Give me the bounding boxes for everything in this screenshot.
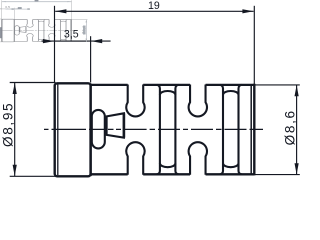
dimension 3,5: outside arrowhead left	[43, 39, 54, 43]
ghost 19-dimension line	[2, 1, 71, 3]
nub boss (capsule)	[92, 110, 105, 148]
ghost right diameter label smudge	[83, 26, 86, 35]
dimension 3,5: extension line right	[90, 36, 92, 82]
dimension Ø8,6: dimension line	[296, 85, 298, 174]
dimension 19: left arrowhead	[55, 9, 66, 13]
clipped ghost text remnant at left edge	[0, 27, 2, 38]
dimension 19: dimension line	[55, 10, 253, 12]
dimension 19: extension line left	[54, 6, 56, 82]
drawing group (main view + dimensions)	[1, 0, 300, 176]
body top edge (Ø8.6 section)	[91, 84, 255, 86]
dimension Ø8,95: top arrowhead	[13, 83, 17, 94]
dimension 3,5: dimension line	[42, 40, 111, 42]
set screw face line	[123, 113, 126, 137]
ghost 3,5 label smudge	[18, 7, 22, 9]
keyhole slot pair 2 (bottom)	[189, 142, 207, 175]
axial slot 1 top end arc	[160, 91, 176, 95]
dimension 19: right arrowhead	[242, 9, 253, 13]
ghost 19 label smudge	[35, 0, 39, 1]
dimension 3,5: outside arrowhead right	[91, 39, 102, 43]
right face chamfer line	[250, 85, 252, 174]
dimension 19: extension line right	[253, 6, 255, 84]
ghost right diameter dimension line	[85, 20, 87, 42]
dimension Ø8,95: dimension line	[14, 83, 16, 176]
svg-text:19: 19	[148, 0, 160, 12]
axial slot 1 (left side line with fillets)	[157, 85, 160, 174]
axial slot 1 bottom end arc	[160, 163, 176, 167]
svg-text:Ø8,6: Ø8,6	[282, 109, 297, 145]
dimension Ø8,6: extension line top	[256, 84, 300, 86]
body bottom edge	[91, 173, 255, 175]
axial slot 2 bottom end arc	[223, 163, 239, 167]
axial slot 1 (right side line with fillets)	[175, 85, 178, 174]
keyhole slot pair 1 (bottom)	[126, 142, 144, 175]
centerline (part axis)	[44, 128, 263, 130]
axial slot 2 (right side line with fillets)	[239, 85, 242, 174]
faint miniature copy of the drawing (top-left ghost)	[0, 0, 87, 42]
axial slot 2 (left side line with fillets)	[220, 85, 223, 174]
set screw (trapezoid)	[107, 113, 124, 137]
ghost 3,5 dimension line	[6, 8, 31, 10]
dimension Ø8,6: top arrowhead	[295, 85, 299, 96]
svg-text:Ø8,95: Ø8,95	[1, 102, 16, 147]
axial slot 2 top end arc	[223, 91, 239, 95]
dimension Ø8,6: extension line bottom	[256, 174, 300, 176]
ghost 3,5 arrow smudge left	[12, 8, 14, 10]
keyhole slot pair 1 (top)	[126, 85, 144, 117]
ghost 3,5 arrow smudge right	[27, 8, 30, 10]
dimension Ø8,6: bottom arrowhead	[295, 163, 299, 174]
body right face	[253, 84, 255, 176]
dimension Ø8,95: extension line top	[10, 82, 56, 84]
collar chamfer line	[57, 85, 59, 176]
collar (flange, Ø8.95 section)	[55, 83, 91, 176]
dimension Ø8,95: bottom arrowhead	[13, 165, 17, 176]
collar-body junction line	[89, 84, 91, 177]
dimension Ø8,95: extension line bottom	[10, 175, 56, 177]
keyhole slot pair 2 (top)	[189, 85, 207, 117]
